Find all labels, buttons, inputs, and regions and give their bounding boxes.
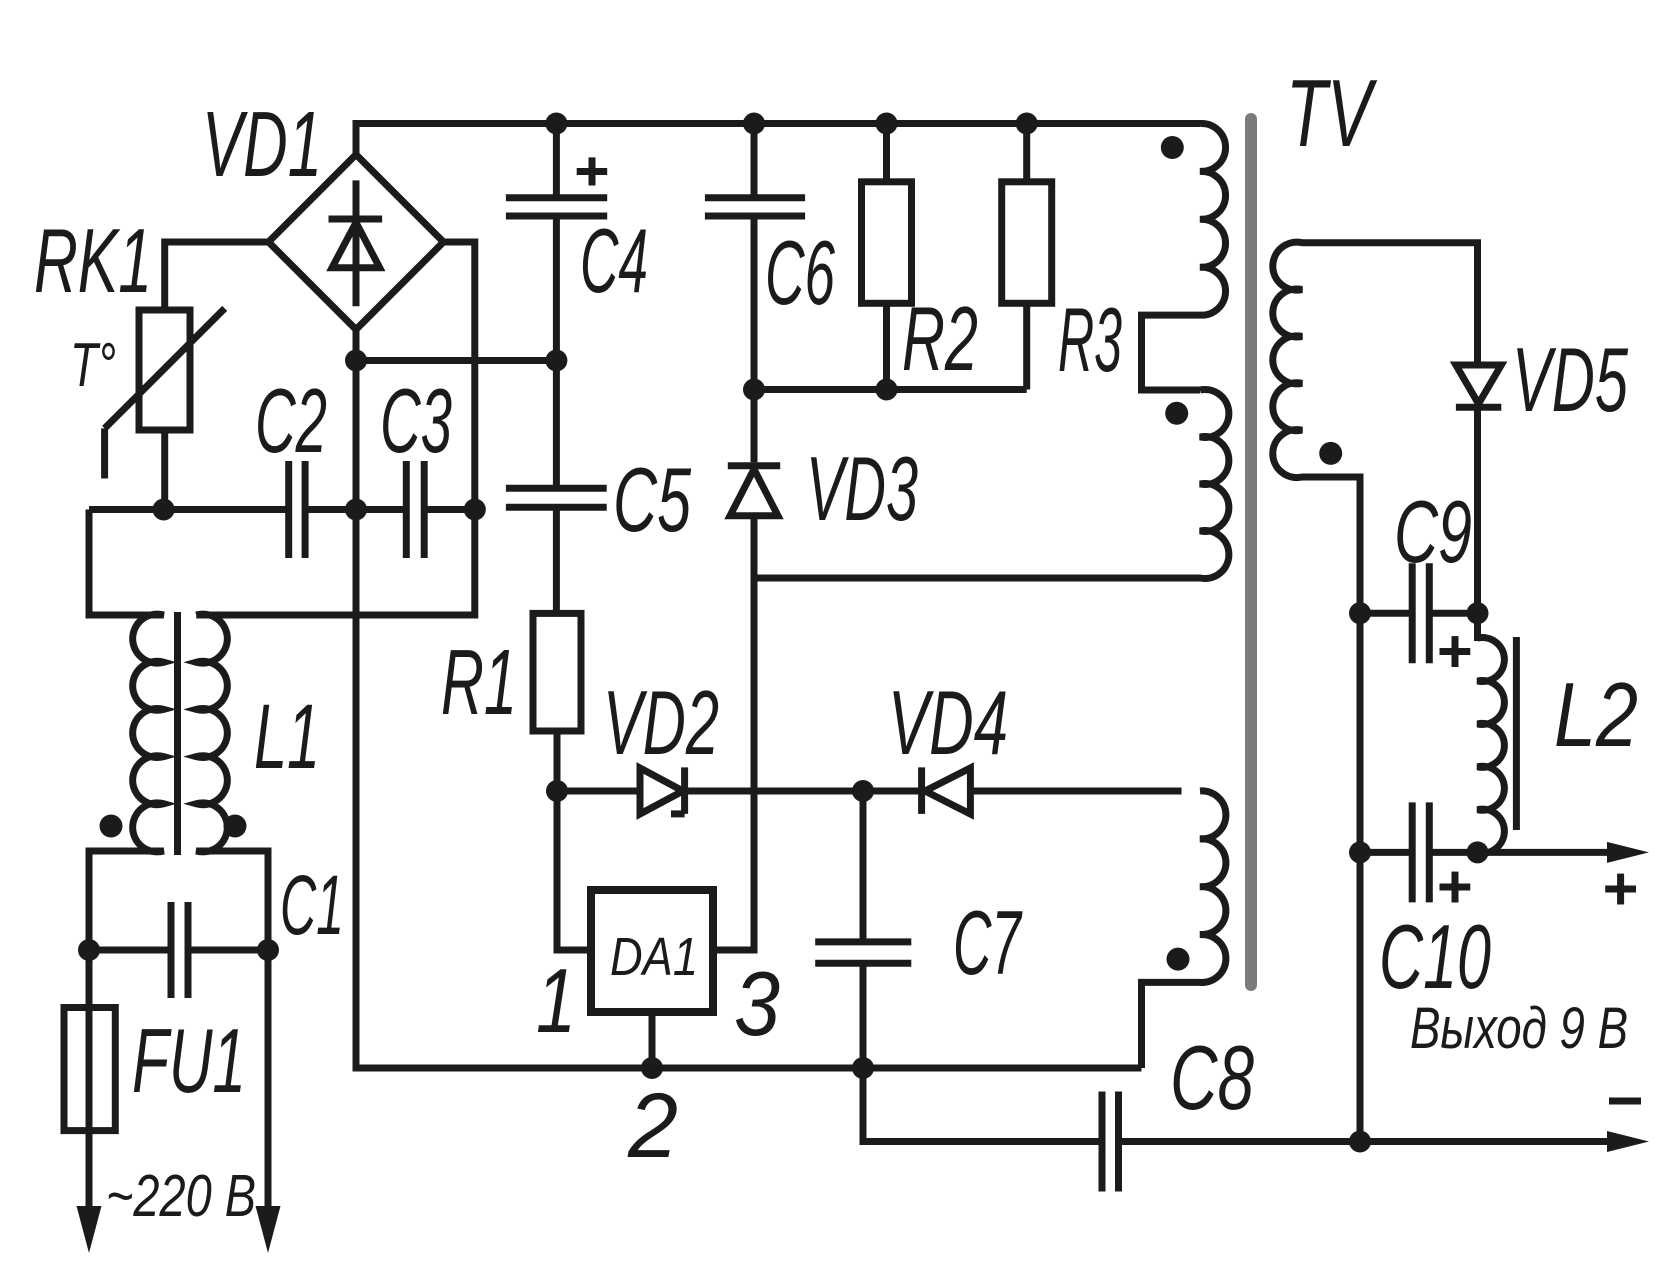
capacitor C7 [860, 791, 867, 1068]
capacitor C1 [168, 902, 175, 998]
wire clamp line [754, 386, 1027, 393]
junction VD2 VD4 C7 [852, 780, 874, 802]
wire C2 C3 line [89, 506, 475, 513]
plus mark C9 [1440, 648, 1471, 655]
svg-text:RK1: RK1 [34, 211, 152, 312]
wire VD1 left vertex to RK1 [165, 242, 269, 310]
svg-text:C1: C1 [280, 858, 344, 952]
svg-text:C4: C4 [580, 211, 648, 312]
svg-text:~220 В: ~220 В [106, 1163, 256, 1229]
junction C1 right [257, 939, 279, 961]
capacitor C10 [1360, 849, 1478, 856]
svg-text:C5: C5 [613, 450, 691, 551]
svg-text:C9: C9 [1394, 482, 1472, 581]
junction C10 right [1467, 841, 1489, 863]
wire VD1 bottom to C4 [356, 357, 556, 364]
inductor L2 core [1513, 637, 1520, 830]
plus mark C10 [1440, 884, 1471, 891]
junction pin2 rail [641, 1057, 663, 1079]
svg-text:C7: C7 [953, 893, 1023, 994]
junction clamp node VD3 [743, 379, 765, 401]
minus mark output [1609, 1098, 1641, 1105]
wire top rail [356, 124, 1200, 155]
fuse FU1 [64, 1008, 115, 1131]
svg-text:R1: R1 [441, 630, 517, 734]
transformer TV winding 1 [1142, 123, 1226, 390]
wire VD1 bottom vertical [356, 330, 1142, 1069]
TV phase dot w1 [1161, 136, 1184, 159]
wire secondary left vertical [1357, 613, 1364, 1141]
capacitor C4 [553, 124, 560, 361]
input arrow left [77, 1206, 102, 1253]
capacitor C2 [285, 461, 292, 558]
svg-text:L1: L1 [254, 686, 320, 788]
capacitor C6 [751, 124, 758, 390]
resistor R2 [883, 124, 890, 390]
junction C10 left [1349, 841, 1371, 863]
junction C2 C3 mid [345, 499, 367, 521]
junction top rail R2 [876, 113, 898, 135]
svg-text:C2: C2 [255, 371, 327, 472]
wire VD1 right vertex down to L1 [196, 242, 475, 615]
thermistor RK1 [139, 310, 190, 430]
output minus arrow [1607, 1131, 1649, 1152]
capacitor C9 [1360, 610, 1478, 617]
wire R1 to DA1 pin1 [557, 791, 591, 950]
wire RK1 bottom lead [161, 430, 168, 510]
TV phase dot w4 [1319, 442, 1342, 465]
svg-text:TV: TV [1286, 60, 1378, 167]
svg-text:VD1: VD1 [202, 92, 322, 196]
diode VD5 [1474, 360, 1481, 365]
capacitor C3 [403, 461, 410, 558]
junction C9 right [1467, 602, 1489, 624]
svg-text:C3: C3 [380, 371, 452, 472]
resistor R3 [1023, 124, 1030, 390]
svg-text:VD2: VD2 [603, 673, 719, 774]
inductor L1 phase dot right [224, 815, 247, 838]
inductor L1 core [174, 612, 181, 855]
transformer TV winding 3 [1142, 791, 1226, 1068]
svg-text:R2: R2 [902, 289, 978, 390]
junction top rail R3 [1016, 113, 1038, 135]
inductor L1 phase dot left [100, 815, 123, 838]
junction C4 C5 node [545, 350, 567, 372]
junction top rail C4 [545, 113, 567, 135]
wire output minus [1119, 1138, 1609, 1145]
capacitor C5 [553, 361, 560, 614]
diode VD3 [751, 390, 758, 463]
svg-text:1: 1 [536, 951, 576, 1052]
svg-text:VD4: VD4 [888, 673, 1008, 774]
transformer TV winding 2 [754, 390, 1229, 579]
svg-text:C8: C8 [1170, 1028, 1254, 1129]
svg-text:R3: R3 [1058, 290, 1122, 391]
svg-text:VD5: VD5 [1512, 330, 1628, 431]
svg-text:Выход 9 В: Выход 9 В [1410, 996, 1628, 1061]
capacitor C8 [863, 1068, 1102, 1142]
svg-text:T°: T° [70, 331, 116, 400]
bridge VD1 inner diode [353, 180, 360, 306]
TV phase dot w3 [1167, 948, 1190, 971]
zener VD2 [557, 788, 640, 795]
junction RK1 bottom [153, 499, 175, 521]
TV phase dot w2 [1165, 402, 1188, 425]
junction clamp node R2 [876, 379, 898, 401]
wire L2 top [1474, 613, 1481, 641]
svg-text:DA1: DA1 [610, 927, 698, 987]
svg-text:L2: L2 [1554, 665, 1638, 766]
junction R1 VD2 pin1 [546, 780, 568, 802]
bridge rectifier VD1 diamond [269, 155, 444, 330]
inductor L2 [1478, 638, 1505, 854]
output plus arrow [1607, 842, 1649, 863]
junction C7 C8 rail [852, 1057, 874, 1079]
junction top rail C6 [743, 113, 765, 135]
plus mark output [1605, 886, 1636, 893]
transformer TV core [1245, 119, 1257, 985]
wire output plus [1478, 849, 1609, 856]
junction C9 left [1349, 602, 1371, 624]
svg-text:C10: C10 [1379, 907, 1491, 1008]
inductor L1 right winding [196, 614, 268, 1210]
transformer TV winding 4 [1273, 242, 1478, 613]
svg-text:3: 3 [734, 954, 780, 1055]
junction minus line [1349, 1131, 1371, 1153]
junction C1 left [78, 939, 100, 961]
diode VD4 [863, 788, 922, 795]
plus mark C4 [577, 168, 608, 175]
junction C3 right [464, 499, 486, 521]
inductor L1 left winding [89, 510, 164, 1211]
svg-text:C6: C6 [765, 223, 835, 324]
svg-text:2: 2 [627, 1075, 678, 1177]
svg-text:FU1: FU1 [132, 1011, 246, 1112]
resistor R1 [533, 613, 581, 731]
input arrow right [256, 1206, 281, 1253]
IC DA1 box [591, 890, 713, 1012]
wire DA1 pin2 [649, 1012, 656, 1068]
junction VD1 minus node [345, 350, 367, 372]
svg-text:VD3: VD3 [806, 439, 918, 540]
